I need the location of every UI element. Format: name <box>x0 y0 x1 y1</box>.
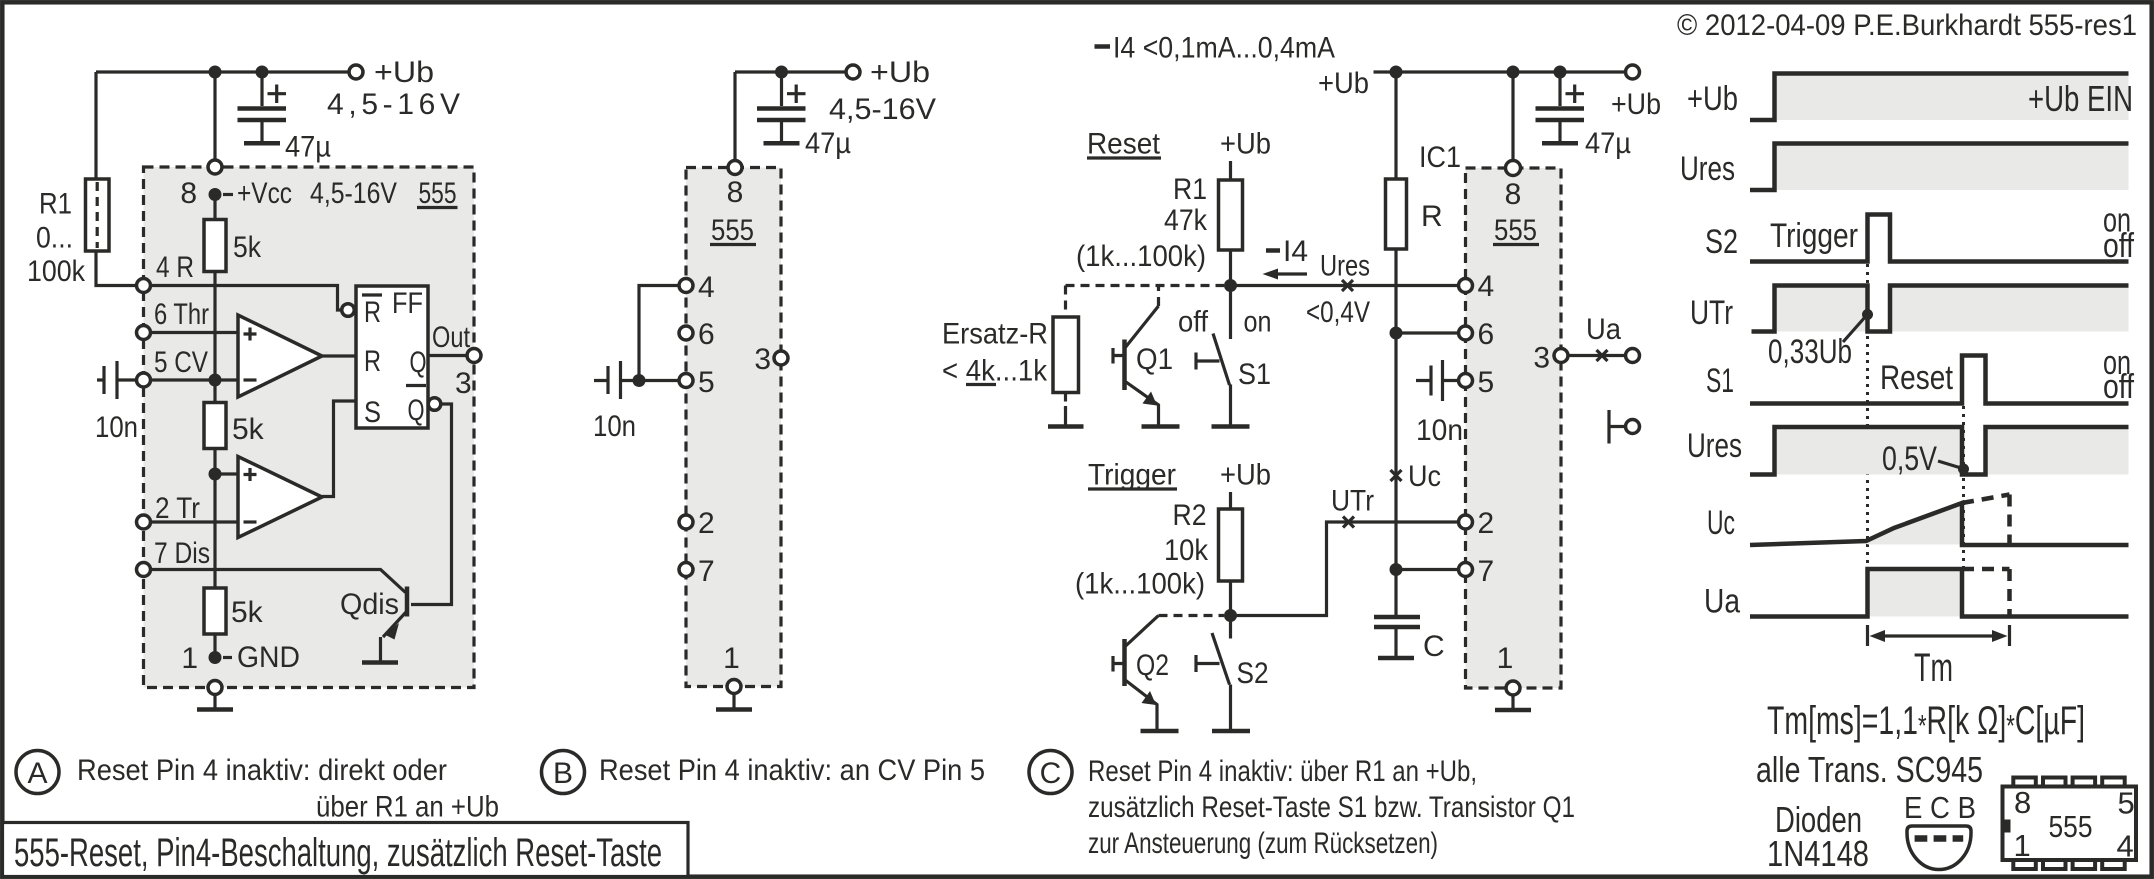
wire pin2 to comp2 minus <box>151 520 238 523</box>
pin 6 circle B <box>679 326 693 340</box>
wire pin8 stem <box>213 72 216 167</box>
ground bar under 47u A <box>244 141 280 146</box>
divider rail <box>213 195 216 658</box>
svg-text:555: 555 <box>419 177 457 210</box>
svg-text:10k: 10k <box>1164 534 1209 567</box>
svg-text:10n: 10n <box>1416 414 1463 447</box>
pin 8 circle <box>208 160 222 174</box>
svg-text:über R1 an +Ub: über R1 an +Ub <box>316 791 499 824</box>
capacitor 47u C <box>1558 72 1561 106</box>
svg-text:S2: S2 <box>1237 657 1269 690</box>
svg-text:Ua: Ua <box>1586 313 1621 346</box>
row UTr waveform <box>1752 286 2129 332</box>
svg-text:6: 6 <box>1478 318 1495 351</box>
svg-text:(1k...100k): (1k...100k) <box>1076 240 1206 273</box>
wire FF S input from comp2 <box>322 401 356 497</box>
title box <box>3 823 689 877</box>
svg-text:5: 5 <box>698 366 715 399</box>
svg-text:47µ: 47µ <box>1585 127 1631 160</box>
node dot pin8 / Vcc <box>209 188 222 201</box>
ground bar S2 <box>1212 729 1250 734</box>
wire pin5 to comp1 minus <box>151 378 238 381</box>
svg-text:47µ: 47µ <box>285 131 331 164</box>
resistor Ersatz-R <box>1064 286 1067 318</box>
junction reset node <box>1224 279 1237 292</box>
wire Q-bar to Qdis base <box>411 404 452 605</box>
svg-text:5: 5 <box>2118 786 2135 821</box>
svg-text:2 Tr: 2 Tr <box>155 492 200 525</box>
dotted timeline reset <box>1962 406 1965 569</box>
svg-text:10n: 10n <box>593 410 636 443</box>
svg-text:on: on <box>1244 306 1272 339</box>
svg-text:UTr: UTr <box>1331 485 1374 518</box>
svg-text:UTr: UTr <box>1690 294 1733 332</box>
pin 4 circle B <box>679 279 693 293</box>
junction comp2 plus node <box>209 468 222 481</box>
ground bar Qdis <box>362 660 398 665</box>
TO-92 package outline <box>1907 826 1971 870</box>
svg-text:555: 555 <box>2049 809 2093 844</box>
pin 5 circle B <box>679 374 693 388</box>
svg-text:+Ub EIN: +Ub EIN <box>2028 78 2133 119</box>
svg-text:Ures: Ures <box>1680 150 1735 188</box>
svg-text:7: 7 <box>1478 555 1495 588</box>
svg-text:S1: S1 <box>1238 358 1271 391</box>
node Ures cross <box>1342 280 1353 291</box>
svg-text:Qdis: Qdis <box>340 588 399 621</box>
transistor Q2 <box>1159 614 1225 617</box>
ground bar S1 <box>1212 424 1250 429</box>
wire to pin 7 <box>1396 568 1458 571</box>
svg-text:8: 8 <box>180 177 197 210</box>
svg-text:+Ub: +Ub <box>1687 80 1738 118</box>
svg-text:IC1: IC1 <box>1419 141 1461 174</box>
transistor Qdis <box>405 587 410 617</box>
svg-text:Tm: Tm <box>1914 646 1953 690</box>
svg-text:S2: S2 <box>1705 223 1738 261</box>
inverter bubble R-bar <box>342 304 355 317</box>
svg-text:Ures: Ures <box>1320 250 1370 283</box>
resistor R1 (C) <box>1219 180 1243 250</box>
pin 2 circle <box>137 515 151 529</box>
svg-text:Out: Out <box>432 321 471 354</box>
svg-text:4,5-16V: 4,5-16V <box>829 93 936 126</box>
junction node rail top <box>209 66 222 79</box>
svg-text:3: 3 <box>455 367 472 400</box>
svg-text:Ua: Ua <box>1704 583 1740 621</box>
svg-text:+Ub: +Ub <box>870 56 930 89</box>
node Uc cross <box>1391 470 1402 481</box>
pin 8 circle C <box>1506 161 1521 176</box>
wire comp1 out to FF R <box>322 354 356 357</box>
DIP pin bottom 2 <box>2043 860 2066 869</box>
junction cap tap <box>256 66 269 79</box>
terminal +Ub right C <box>1626 65 1640 79</box>
transistor Q1 <box>1122 340 1127 391</box>
svg-text:10n: 10n <box>95 411 138 444</box>
svg-text:2: 2 <box>698 507 715 540</box>
svg-text:S1: S1 <box>1706 362 1734 400</box>
junction rail to pin8 <box>1507 66 1520 79</box>
svg-text:0...: 0... <box>36 222 73 255</box>
capacitor C <box>1374 617 1420 627</box>
svg-text:alle Trans. SC945: alle Trans. SC945 <box>1756 749 1983 790</box>
svg-text:4: 4 <box>1478 270 1495 303</box>
wire pin7 to Qdis collector <box>151 570 406 593</box>
wire R2 stem <box>1229 492 1232 509</box>
resistor R1 <box>86 179 110 251</box>
svg-text:R1: R1 <box>1173 173 1207 206</box>
row Ua waveform <box>1750 569 2129 617</box>
marker circle C <box>1029 751 1072 794</box>
junction 10n node B <box>633 374 646 387</box>
row Ua dashed continuation <box>1962 569 2010 617</box>
DIP pin bottom 1 <box>2013 860 2036 869</box>
wire R1 stem <box>1229 161 1232 180</box>
svg-text:5k: 5k <box>232 413 265 446</box>
row Uc fill <box>1868 503 1963 545</box>
svg-text:© 2012-04-09 P.E.Burkhardt 555: © 2012-04-09 P.E.Burkhardt 555-res1 <box>1677 9 2137 42</box>
svg-text:Trigger: Trigger <box>1770 217 1858 255</box>
svg-text:zur Ansteuerung (zum Rücksetze: zur Ansteuerung (zum Rücksetzen) <box>1088 827 1438 860</box>
svg-text:6 Thr: 6 Thr <box>154 298 209 331</box>
row Ures1 waveform <box>1750 144 2129 191</box>
switch S2 <box>1229 616 1232 639</box>
svg-text:8: 8 <box>1505 178 1522 211</box>
svg-text:1: 1 <box>181 642 198 675</box>
resistor 5k upper <box>204 220 226 272</box>
svg-text:Q: Q <box>408 394 425 427</box>
svg-text:Uc: Uc <box>1408 460 1441 493</box>
terminal +Ub B <box>846 65 860 79</box>
svg-text:R: R <box>364 345 381 378</box>
capacitor 10n B <box>594 361 633 399</box>
pin 8 circle B <box>728 161 742 175</box>
svg-text:4: 4 <box>2117 829 2134 864</box>
555 internal dashed box (IC boundary) <box>144 167 475 688</box>
svg-text:1: 1 <box>2014 828 2031 863</box>
DIP pin bottom 3 <box>2073 860 2096 869</box>
svg-text:off: off <box>1178 306 1209 339</box>
svg-text:Reset: Reset <box>1087 128 1161 161</box>
svg-text:0,33Ub: 0,33Ub <box>1768 333 1852 371</box>
junction pin7 tap <box>1390 563 1403 576</box>
marker circle A <box>16 751 59 794</box>
DIP pin bottom 4 <box>2102 860 2125 869</box>
svg-text:555: 555 <box>1494 214 1537 247</box>
DIP pin top 1 <box>2013 778 2036 787</box>
row S2 waveform <box>1750 215 2129 262</box>
svg-text:8: 8 <box>2014 785 2031 820</box>
svg-text:C: C <box>1423 630 1445 663</box>
svg-text:4: 4 <box>698 271 715 304</box>
node pin1 GND <box>209 651 222 664</box>
pin 3 circle B <box>774 351 788 365</box>
svg-text:I4: I4 <box>1283 235 1308 268</box>
wire +Ub rail A <box>96 70 349 73</box>
wire left branch to R1 and pin 4 <box>96 72 137 286</box>
row Ua fill <box>1868 569 1963 617</box>
ground bar Ersatz-R <box>1048 424 1084 429</box>
flip-flop FF box <box>356 286 428 428</box>
svg-text:Reset Pin 4 inaktiv: an CV Pin: Reset Pin 4 inaktiv: an CV Pin 5 <box>599 754 985 787</box>
pin 5 circle <box>137 373 151 387</box>
marker circle B <box>542 751 585 794</box>
node UTr cross <box>1343 517 1354 528</box>
ground bar Q1 <box>1142 424 1180 429</box>
row Ures1 fill <box>1775 144 2129 191</box>
pin 4 circle C <box>1459 279 1473 293</box>
op-amp comparator lower <box>238 457 322 538</box>
wire to comp2 plus <box>215 472 238 475</box>
svg-text:7 Dis: 7 Dis <box>154 537 210 570</box>
wire to pin 6 <box>1396 331 1458 334</box>
junction rail to R <box>1390 66 1403 79</box>
DIP index notch <box>2002 820 2011 833</box>
svg-text:2: 2 <box>1478 507 1495 540</box>
row +Ub waveform <box>1750 74 2129 121</box>
pin 6 circle <box>137 326 151 340</box>
node Ua cross <box>1597 350 1608 361</box>
svg-text:R1: R1 <box>39 188 72 221</box>
svg-text:C: C <box>1040 757 1062 790</box>
capacitor 47u A (polarized) <box>260 72 263 106</box>
wire R to C node rail <box>1394 249 1397 617</box>
wire R stem <box>1394 72 1397 180</box>
svg-text:100k: 100k <box>27 255 86 288</box>
svg-text:Q: Q <box>410 346 427 379</box>
wire pin8 stem B <box>733 72 736 168</box>
svg-text:+Ub: +Ub <box>374 56 434 89</box>
op-amp comparator upper <box>238 315 322 397</box>
svg-text:555-Reset, Pin4-Beschaltung, z: 555-Reset, Pin4-Beschaltung, zusätzlich … <box>14 831 662 875</box>
svg-text:5k: 5k <box>233 231 262 264</box>
wire pin4 to FF R-bar <box>151 286 341 311</box>
svg-text:5: 5 <box>1478 366 1495 399</box>
junction cap tap B <box>775 66 788 79</box>
DIP pin top 4 <box>2102 778 2125 787</box>
svg-text:R: R <box>1421 200 1443 233</box>
ground symbol C <box>1511 696 1514 709</box>
wire trigger node to pin 2 <box>1231 522 1459 616</box>
row UTr fill <box>1775 286 1868 332</box>
DIP-8 package outline <box>2003 787 2137 861</box>
row S1 waveform <box>1750 356 2129 404</box>
row Ures2 waveform <box>1750 427 2129 475</box>
svg-text:zusätzlich Reset-Taste S1 bzw.: zusätzlich Reset-Taste S1 bzw. Transisto… <box>1088 791 1575 824</box>
pin 2 circle B <box>679 515 693 529</box>
svg-text:<0,4V: <0,4V <box>1306 296 1370 329</box>
555 dashed box C <box>1466 168 1562 688</box>
resistor 5k lower <box>204 588 226 634</box>
terminal 0V stub <box>1609 410 1625 444</box>
capacitor 10n A <box>97 361 136 399</box>
svg-text:GND: GND <box>237 641 300 674</box>
switch S1 <box>1229 286 1232 340</box>
pin 3 circle C <box>1554 349 1568 363</box>
svg-text:off: off <box>2103 368 2134 406</box>
row Uc waveform <box>1750 503 2129 545</box>
node 0,5V dot <box>1958 464 1969 475</box>
svg-text:3: 3 <box>754 343 771 376</box>
FF Q-bar bubble <box>428 398 441 411</box>
wire pin3 to Ua terminal <box>1569 354 1626 357</box>
svg-text:Ersatz-R: Ersatz-R <box>942 318 1048 351</box>
svg-text:Trigger: Trigger <box>1088 459 1176 492</box>
wire R1 to reset node <box>1229 250 1232 286</box>
svg-text:off: off <box>2103 227 2134 265</box>
svg-text:1N4148: 1N4148 <box>1767 833 1869 874</box>
ground bar under 47u C <box>1542 141 1578 146</box>
pin 4 circle <box>137 279 151 293</box>
svg-text:S: S <box>364 396 381 429</box>
capacitor 10n C <box>1416 360 1458 401</box>
svg-text:R2: R2 <box>1173 499 1207 532</box>
node 0,33Ub dot <box>1862 309 1873 320</box>
pin 7 circle C <box>1459 563 1473 577</box>
row Ures2 fill <box>1775 427 1963 475</box>
wire pin6 to comp1 <box>151 331 238 334</box>
svg-text:3: 3 <box>1533 342 1550 375</box>
row Uc dashed continuation <box>1962 495 2010 546</box>
label -I4 arrow <box>1266 248 1280 253</box>
pin 7 circle B <box>679 563 693 577</box>
resistor R2 <box>1219 509 1243 581</box>
wire pin8 stem C <box>1511 72 1514 168</box>
junction rail to 47u <box>1554 66 1567 79</box>
dotted timeline trigger <box>1866 264 1869 569</box>
wire +Ub rail B <box>735 70 846 73</box>
junction pin6 tap <box>1390 327 1403 340</box>
svg-text:Q2: Q2 <box>1136 649 1169 682</box>
svg-text:1: 1 <box>723 642 740 675</box>
junction CV divider <box>209 374 222 387</box>
svg-text:555: 555 <box>711 214 754 247</box>
row +Ub fill <box>1775 74 2129 121</box>
svg-text:47k: 47k <box>1164 204 1208 237</box>
pin 1 circle C <box>1506 681 1520 695</box>
svg-text:+Ub: +Ub <box>1220 128 1271 161</box>
svg-text:Reset Pin 4 inaktiv: über R1 a: Reset Pin 4 inaktiv: über R1 an +Ub, <box>1088 755 1477 788</box>
svg-text:0,5V: 0,5V <box>1882 440 1937 478</box>
pin 7 circle <box>137 563 151 577</box>
svg-text:8: 8 <box>727 176 744 209</box>
ground bar under 47u B <box>764 141 800 146</box>
svg-text:+Ub: +Ub <box>1318 67 1369 100</box>
resistor 5k middle <box>204 403 226 449</box>
ground symbol B <box>732 694 735 708</box>
svg-text:< 4k...1k: < 4k...1k <box>942 355 1048 388</box>
svg-text:Ures: Ures <box>1687 427 1742 465</box>
svg-text:7: 7 <box>698 555 715 588</box>
wire R2 to trigger node <box>1229 581 1232 616</box>
svg-text:Tm[ms]=1,1*R[k Ω]*C[µF]: Tm[ms]=1,1*R[k Ω]*C[µF] <box>1767 699 2085 743</box>
svg-text:+Ub: +Ub <box>1220 459 1271 492</box>
svg-text:Reset: Reset <box>1880 359 1953 397</box>
junction trigger node <box>1224 609 1237 622</box>
555 dashed box B <box>686 168 781 687</box>
svg-text:Reset Pin 4 inaktiv: direkt od: Reset Pin 4 inaktiv: direkt oder <box>77 754 447 787</box>
svg-text:5 CV: 5 CV <box>154 346 208 379</box>
svg-text:R: R <box>364 296 381 329</box>
terminal Ua <box>1626 349 1640 363</box>
svg-text:4,5-16V: 4,5-16V <box>310 177 397 210</box>
dashed wire reset node to Q1/Ersatz-R <box>1066 284 1225 287</box>
pin 1 circle B <box>727 680 741 694</box>
ground bar under C <box>1378 656 1414 661</box>
svg-text:E C B: E C B <box>1904 790 1976 825</box>
pin 5 circle C <box>1459 374 1473 388</box>
svg-text:B: B <box>553 757 573 790</box>
pin 2 circle C <box>1459 515 1473 529</box>
svg-text:6: 6 <box>698 318 715 351</box>
svg-text:Uc: Uc <box>1707 504 1735 542</box>
resistor R <box>1386 179 1407 249</box>
svg-text:I4 <0,1mA...0,4mA: I4 <0,1mA...0,4mA <box>1113 32 1335 65</box>
ground bar Q2 <box>1141 729 1179 734</box>
svg-text:5k: 5k <box>231 596 264 629</box>
svg-text:A: A <box>27 757 47 790</box>
svg-text:Q1: Q1 <box>1136 343 1173 376</box>
svg-text:(1k...100k): (1k...100k) <box>1075 568 1205 601</box>
wire pin4 to pin5 via cap node <box>639 286 678 381</box>
pin 1 circle bottom <box>208 681 222 695</box>
label -I4 current note <box>1095 44 1111 49</box>
ground symbol A <box>213 695 216 708</box>
terminal +Ub A <box>349 65 363 79</box>
capacitor 47u B <box>780 72 783 106</box>
DIP pin top 2 <box>2043 778 2066 787</box>
svg-text:+Ub: +Ub <box>1611 88 1661 121</box>
svg-text:FF: FF <box>392 287 423 320</box>
svg-text:1: 1 <box>1497 642 1514 675</box>
wire reset node to pin 4 <box>1231 284 1459 287</box>
DIP pin top 3 <box>2073 778 2096 787</box>
wire +Ub rail C <box>1374 70 1626 73</box>
pin 6 circle C <box>1459 326 1473 340</box>
svg-text:+Vcc: +Vcc <box>237 177 292 210</box>
wire FF Q to pin 3 Out <box>428 354 474 357</box>
svg-text:47µ: 47µ <box>805 127 851 160</box>
Tm dimension arrow <box>1868 625 2010 646</box>
svg-text:4 R: 4 R <box>156 251 194 284</box>
